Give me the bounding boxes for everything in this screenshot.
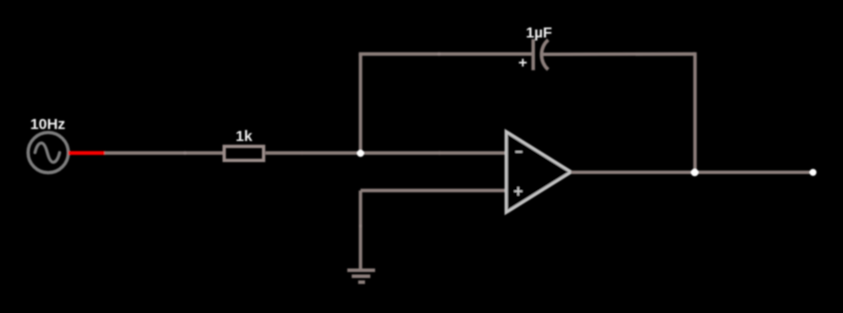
wire resistor to inverting input (266, 151, 506, 154)
joint dot mid wire (438, 151, 441, 154)
svg-text:1µF: 1µF (526, 24, 552, 41)
wire capacitor to top right (542, 52, 695, 56)
node output terminal (810, 169, 817, 176)
joint dot top wire (437, 52, 440, 55)
capacitor C1 left plate (531, 39, 535, 70)
AC source sine wave (35, 143, 60, 162)
node junction input (357, 150, 364, 157)
op-amp plus sign (514, 187, 522, 196)
joint dot (183, 151, 186, 154)
svg-text:1k: 1k (236, 128, 253, 145)
node junction output feedback (691, 169, 699, 177)
wire feedback top left (359, 52, 533, 55)
op-amp minus sign (516, 151, 523, 153)
wire op-amp output (571, 171, 813, 174)
wire source lead (red) (69, 151, 106, 155)
joint dot ground wire (359, 224, 362, 227)
AC source V1 circle (28, 133, 68, 173)
wire feedback left vertical (359, 54, 362, 153)
ground symbol (347, 270, 375, 282)
svg-text:10Hz: 10Hz (30, 116, 65, 133)
wire source to resistor (105, 151, 224, 154)
op-amp U1 (506, 132, 571, 213)
wire noninverting input horizontal (361, 189, 506, 192)
wire noninverting to ground vertical (359, 191, 362, 270)
joint dot resistor-node wire (300, 151, 303, 154)
wire feedback right vertical (693, 52, 696, 172)
capacitor plus polarity mark (519, 59, 527, 67)
capacitor C1 curved plate (542, 40, 549, 70)
resistor R1 1k body (224, 146, 263, 160)
